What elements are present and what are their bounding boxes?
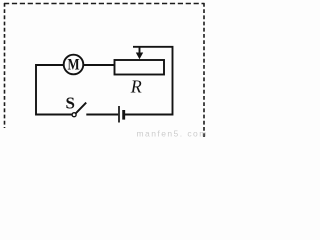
dashed border left	[4, 3, 6, 128]
wire arrow to right side and down to battery	[125, 47, 173, 115]
battery short thick plate (-)	[122, 110, 125, 120]
wire left loop (top-left, left side, bottom-left)	[36, 65, 72, 115]
dashed border top	[4, 3, 205, 5]
switch pivot contact	[72, 113, 76, 117]
wire battery to switch	[86, 114, 118, 116]
slider arrow head	[136, 53, 143, 60]
svg-text:M: M	[67, 56, 79, 74]
switch blade	[75, 103, 86, 114]
dashed border right	[203, 3, 205, 137]
svg-text:S: S	[65, 93, 74, 112]
wire motor to rheostat	[83, 64, 115, 66]
battery long plate (+)	[118, 106, 120, 123]
svg-text:manfen5. com: manfen5. com	[137, 129, 208, 139]
rheostat R body	[115, 60, 165, 75]
slider arrow stem	[139, 47, 141, 54]
svg-text:R: R	[130, 76, 142, 96]
motor M	[64, 55, 84, 75]
